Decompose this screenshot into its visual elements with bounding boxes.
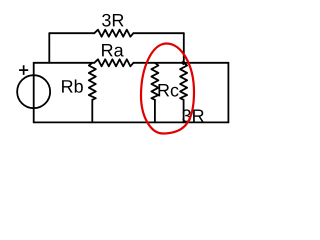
label 3R bottom: [182, 109, 203, 122]
wire top-left vertical branch: [48, 33, 50, 63]
wire 3R right bottom lead: [183, 100, 185, 123]
resistor 3R (right): [180, 63, 187, 100]
label Rc: [158, 84, 178, 97]
wire bottom horizontal: [34, 121, 229, 123]
wire Rb bottom lead: [91, 100, 93, 123]
wire source vertical: [33, 63, 35, 123]
red highlight ellipse around Rc: [141, 44, 194, 134]
plus sign of source: [19, 65, 28, 75]
wire right outer vertical: [227, 63, 229, 123]
label Rb: [62, 80, 83, 93]
label 3R top: [102, 14, 123, 27]
voltage source V1 circle: [17, 75, 50, 108]
wire middle horizontal right: [133, 62, 228, 64]
wire right vertical branch down to junction: [183, 33, 185, 63]
junction dot (diamond): [181, 60, 186, 65]
resistor Rc: [151, 63, 158, 100]
resistor Ra: [94, 59, 133, 66]
resistor 3R (top): [94, 30, 133, 37]
label Ra: [102, 44, 124, 57]
wire Rc bottom lead: [154, 100, 156, 123]
wire top-right horizontal segment: [133, 32, 183, 34]
resistor Rb: [89, 63, 96, 100]
wire middle horizontal left (source to Ra): [34, 62, 95, 64]
wire top-left horizontal segment: [49, 32, 94, 34]
